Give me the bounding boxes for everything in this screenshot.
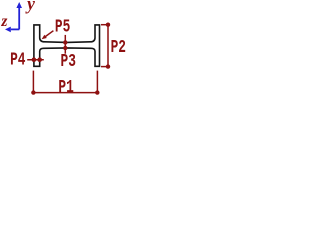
svg-text:P4: P4	[10, 51, 26, 71]
dimension P5 leader arrow	[42, 31, 54, 40]
dimension P1 (total width)	[31, 71, 99, 95]
svg-text:P3: P3	[61, 52, 76, 72]
dimension P4 (flange thickness)	[27, 57, 44, 62]
dimension P2 (total height)	[101, 23, 110, 69]
svg-text:y: y	[25, 0, 35, 13]
svg-text:P5: P5	[55, 18, 70, 38]
svg-text:z: z	[0, 13, 7, 30]
svg-text:P2: P2	[111, 38, 126, 58]
svg-text:P1: P1	[58, 78, 74, 98]
axis y arrow	[16, 2, 22, 29]
beam outline (H cross-section)	[34, 25, 100, 66]
dimension P3 (web thickness)	[63, 35, 67, 54]
axis z arrow	[5, 27, 19, 33]
